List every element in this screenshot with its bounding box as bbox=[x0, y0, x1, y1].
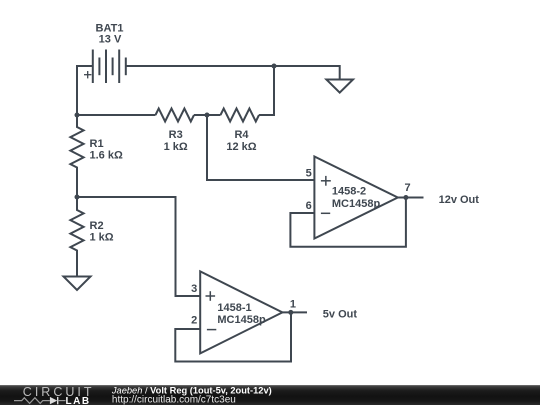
resistor R2 bbox=[70, 197, 83, 277]
svg-text:MC1458p: MC1458p bbox=[217, 314, 266, 326]
footer bar bbox=[0, 385, 540, 405]
junction node E at (405.9,197.5) bbox=[403, 195, 408, 200]
junction node F at (290.8,312.4) bbox=[288, 310, 293, 315]
wire: node D down and right to U1B pin 5 bbox=[207, 115, 314, 180]
svg-text:R4: R4 bbox=[234, 129, 249, 141]
battery BAT1 plates bbox=[93, 50, 126, 84]
svg-text:12 kΩ: 12 kΩ bbox=[226, 141, 256, 153]
wire: U1B output pin 7 bbox=[398, 197, 424, 199]
svg-text:6: 6 bbox=[306, 200, 312, 212]
svg-text:5: 5 bbox=[306, 167, 312, 179]
svg-text:R1: R1 bbox=[90, 138, 104, 150]
svg-text:1.6 kΩ: 1.6 kΩ bbox=[90, 150, 123, 162]
svg-text:7: 7 bbox=[405, 182, 411, 194]
junction node D at (207,115) bbox=[205, 113, 210, 118]
svg-text:1458-1: 1458-1 bbox=[217, 302, 251, 314]
ground GND1 bbox=[64, 277, 91, 291]
wire: battery positive lead to left rail down to node A bbox=[77, 66, 93, 115]
junction node B at (77,197) bbox=[75, 195, 80, 200]
wire: node A to R3 bbox=[77, 114, 156, 116]
op-amp U1B plus input mark bbox=[321, 176, 331, 186]
CircuitLab logo resistor zigzag bbox=[14, 398, 50, 404]
wire: battery negative lead across top to ground GND2 bbox=[126, 66, 340, 80]
op-amp U1A minus input mark bbox=[207, 329, 216, 331]
svg-text:3: 3 bbox=[191, 283, 197, 295]
op-amp U1B 1458-2 triangle bbox=[314, 157, 397, 239]
svg-text:5v Out: 5v Out bbox=[323, 309, 358, 321]
svg-text:13 V: 13 V bbox=[99, 34, 122, 46]
junction node A at (77,115) bbox=[75, 113, 80, 118]
svg-text:1: 1 bbox=[290, 299, 296, 311]
resistor R1 bbox=[70, 115, 83, 197]
resistor R4 bbox=[221, 109, 260, 122]
wire: U1A output pin 1 bbox=[282, 311, 307, 313]
svg-text:2: 2 bbox=[191, 315, 197, 327]
svg-text:LAB: LAB bbox=[66, 396, 91, 405]
svg-text:1 kΩ: 1 kΩ bbox=[90, 232, 114, 244]
wire: node B to U1A pin 3 bbox=[77, 197, 200, 296]
wire: U1B pin 6 feedback loop to output bbox=[290, 198, 406, 247]
svg-text:http://circuitlab.com/c7tc3eu: http://circuitlab.com/c7tc3eu bbox=[112, 395, 236, 405]
op-amp U1B minus input mark bbox=[321, 212, 330, 214]
svg-text:1 kΩ: 1 kΩ bbox=[164, 141, 188, 153]
svg-text:1458-2: 1458-2 bbox=[332, 186, 366, 198]
wire: U1A pin 2 feedback loop to output bbox=[175, 312, 291, 361]
ground GND2 bbox=[326, 80, 353, 93]
svg-text:MC1458p: MC1458p bbox=[332, 198, 381, 210]
svg-text:R3: R3 bbox=[169, 129, 183, 141]
battery BAT1 plus sign bbox=[84, 71, 91, 78]
svg-text:R2: R2 bbox=[90, 220, 104, 232]
svg-text:12v Out: 12v Out bbox=[439, 194, 480, 206]
CircuitLab logo diode bbox=[50, 397, 57, 404]
wire: R3 to R4 through node D bbox=[194, 114, 221, 116]
wire: R4 up to node C bbox=[259, 66, 274, 115]
junction node C at (274,66) bbox=[272, 64, 277, 69]
op-amp U1A plus input mark bbox=[206, 291, 216, 301]
op-amp U1A 1458-1 triangle bbox=[200, 271, 282, 353]
resistor R3 bbox=[156, 109, 195, 122]
